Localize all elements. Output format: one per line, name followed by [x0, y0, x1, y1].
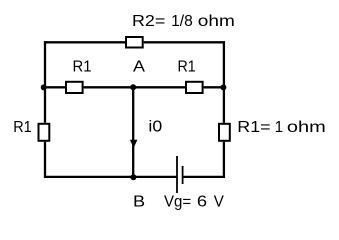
svg-text:i0: i0	[148, 119, 162, 136]
svg-text:R1: R1	[13, 119, 31, 136]
svg-text:1: 1	[275, 119, 283, 136]
svg-text:R1=: R1=	[237, 119, 270, 136]
svg-text:R1: R1	[73, 59, 92, 76]
svg-text:1/8: 1/8	[171, 13, 193, 30]
svg-text:Vg=: Vg=	[164, 193, 191, 210]
svg-text:R1: R1	[178, 59, 196, 76]
svg-text:V: V	[214, 193, 224, 210]
svg-text:6: 6	[197, 193, 207, 210]
svg-text:B: B	[133, 193, 145, 210]
svg-text:A: A	[133, 59, 145, 76]
svg-text:ohm: ohm	[198, 13, 235, 30]
svg-text:R2=: R2=	[132, 13, 165, 30]
svg-text:ohm: ohm	[287, 119, 326, 136]
